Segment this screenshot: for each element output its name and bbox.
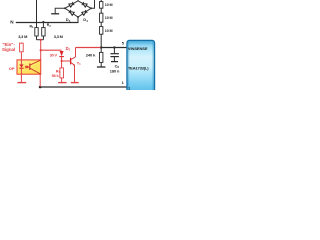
ground bar under 240k	[97, 66, 106, 68]
transistor T1	[70, 58, 72, 65]
wire bridge right corner up to frame top	[91, 0, 95, 8]
node base junction dot	[61, 60, 63, 62]
node bridge bottom corner	[77, 16, 79, 18]
wire chain bottom lead to VINSENSE node	[100, 34, 102, 47]
resistor input (red, Ein-Signal feed)	[20, 43, 24, 52]
wire 10M chain top lead	[100, 0, 102, 2]
svg-text:Signal: Signal	[2, 47, 15, 52]
node red dot bias junction	[40, 49, 42, 51]
opto LED cathode bar	[19, 67, 23, 69]
node junction C6 dot	[113, 46, 115, 48]
ground bar red under R5	[58, 82, 66, 84]
wire bridge top stub	[77, 0, 79, 1]
svg-text:180 n: 180 n	[110, 69, 120, 74]
svg-text:TEA1733(L): TEA1733(L)	[128, 66, 149, 71]
svg-text:OP: OP	[9, 66, 15, 71]
svg-text:3,3 M: 3,3 M	[18, 34, 27, 39]
wire N rail	[16, 22, 78, 24]
node junction dot opto emitter on rail	[39, 86, 42, 89]
opto light arrows	[25, 66, 27, 68]
wire C6 bottom lead	[113, 57, 115, 61]
zener diode D5	[60, 51, 64, 56]
wire ground stem to bridge left corner	[55, 8, 65, 14]
capacitor C6	[110, 53, 119, 55]
opto LED triangle	[19, 64, 23, 67]
wire base node to T1 base	[62, 60, 71, 62]
diode D2 upper-right	[83, 4, 87, 8]
wire T1 collector up	[75, 48, 77, 57]
svg-text:3,3 M: 3,3 M	[54, 34, 63, 39]
node red dot at R1R2 junction	[40, 39, 42, 41]
wire bias to zener top	[41, 49, 62, 51]
wire base node to R5	[61, 61, 63, 68]
wire input resistor top stub	[20, 41, 22, 44]
wire T1 emitter down	[74, 66, 76, 83]
resistor R1	[35, 28, 38, 36]
opto LED lead inside	[20, 60, 22, 64]
wire chain lead b-c	[100, 22, 102, 26]
resistor 10M (b)	[100, 13, 103, 22]
wire opto LED cathode down to ground	[20, 74, 22, 82]
wire R1 bottom lead	[36, 36, 38, 40]
ground terminal bar near bridge	[51, 13, 59, 15]
svg-text:1: 1	[128, 86, 130, 90]
diode D4 lower-right	[82, 12, 86, 16]
node bridge right corner	[90, 7, 92, 9]
node junction dot R2 on N rail	[42, 21, 44, 23]
wire opto emitter down to rail	[39, 74, 41, 87]
wire bias drop from R1R2 to opto collector	[40, 40, 42, 60]
svg-text:D5: D5	[66, 46, 71, 52]
node bridge left corner	[64, 7, 66, 9]
wire joining R1 R2 bottoms	[37, 39, 44, 41]
IC U1 TEA1733 blue box	[127, 40, 155, 91]
ground bar under C6	[111, 61, 118, 63]
wire 240k bottom lead	[100, 62, 102, 66]
svg-text:30 V: 30 V	[50, 52, 58, 57]
wire input resistor to opto LED anode	[20, 52, 22, 60]
node junction chain/collector dot	[100, 46, 102, 48]
wire R2 bottom lead	[42, 36, 44, 40]
wire bottom ground rail to pin 1	[40, 86, 127, 88]
svg-text:240 k: 240 k	[86, 53, 96, 58]
wire red collector line to VINSENSE node	[76, 47, 101, 49]
svg-text:VINSENSE: VINSENSE	[128, 46, 148, 51]
svg-text:T1: T1	[77, 60, 81, 66]
resistor 240k	[100, 52, 103, 62]
svg-text:56 k: 56 k	[52, 73, 60, 78]
wire zener to base node	[61, 57, 63, 61]
wire R2 top lead	[42, 22, 44, 28]
opto phototransistor	[29, 63, 31, 70]
svg-text:10 M: 10 M	[105, 29, 113, 33]
svg-text:D3: D3	[66, 17, 71, 23]
wire C6 top lead	[113, 48, 115, 54]
resistor 10M (c)	[100, 27, 103, 35]
ground bar red under opto LED	[17, 82, 26, 84]
wire bridge bottom to N rail	[77, 17, 79, 23]
ground bar red under T1 emitter	[71, 82, 79, 84]
wire R5 bottom	[61, 78, 63, 83]
wire R1 top lead from frame top crossing N rail	[36, 0, 38, 28]
diode bridge outline D1-D4	[65, 1, 91, 17]
resistor 10M (a)	[100, 2, 103, 9]
svg-text:10 M: 10 M	[105, 16, 113, 20]
diode D1 upper-left	[69, 4, 73, 8]
opto LED lead down inside	[20, 68, 22, 74]
wire black to pin 5	[100, 47, 127, 49]
wire 240k top lead	[100, 48, 102, 53]
wire chain lead a-b	[100, 8, 102, 13]
resistor R2	[42, 28, 45, 36]
diode D3 lower-left	[70, 12, 74, 16]
svg-text:10 M: 10 M	[105, 3, 113, 7]
svg-text:D4: D4	[83, 17, 88, 23]
resistor R5	[60, 68, 64, 78]
